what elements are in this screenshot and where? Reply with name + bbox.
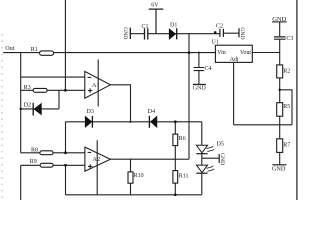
svg-text:R10: R10 <box>134 173 144 179</box>
ground C4 bar <box>193 83 206 85</box>
junction dots <box>214 31 217 34</box>
wire R2 divider chain <box>279 53 281 165</box>
LED D5 upper <box>196 145 214 153</box>
svg-text:Vout: Vout <box>240 50 251 56</box>
svg-text:C3: C3 <box>286 36 293 42</box>
power 6V bar and stem <box>149 9 163 34</box>
svg-text:GND: GND <box>272 165 286 172</box>
svg-text:C2: C2 <box>216 23 223 29</box>
regulator U1 box <box>215 45 252 62</box>
svg-text:Out: Out <box>5 45 15 52</box>
svg-text:R8: R8 <box>31 148 38 154</box>
svg-text:R7: R7 <box>283 142 290 148</box>
wire R6 R11 column <box>174 122 176 195</box>
wire vertical bus x65 <box>64 0 66 90</box>
op-amp A1 minus sign <box>88 76 92 78</box>
svg-text:R6: R6 <box>179 136 186 142</box>
svg-text:D1: D1 <box>170 22 177 28</box>
left page edge (faint) <box>1 34 3 200</box>
wire drop to bottom rail <box>65 122 67 195</box>
svg-text:D2: D2 <box>24 102 31 108</box>
ground C1 sideways bar <box>129 28 131 39</box>
wire adj bypass right <box>280 90 292 125</box>
op-amp A2 power pin <box>96 140 98 195</box>
op-amp A2 minus sign <box>88 151 92 153</box>
svg-text:R3: R3 <box>24 85 31 91</box>
op-amp A2 plus sign <box>88 164 92 168</box>
resistor R5 <box>277 103 283 117</box>
resistor R6 <box>173 134 178 146</box>
wire R9 row <box>21 165 85 200</box>
capacitor C4 leads <box>198 53 200 85</box>
wire D3 D4 rail <box>66 121 202 123</box>
capacitor C2 <box>220 29 224 37</box>
op-amp A1 body <box>85 71 111 98</box>
svg-text:Vin: Vin <box>217 50 226 56</box>
right border frame <box>296 0 298 200</box>
LED D5 lower <box>196 165 214 173</box>
wire bottom rail <box>66 194 202 196</box>
wire Adj stem and feedback <box>234 62 292 124</box>
wire A1 minus input <box>21 76 85 78</box>
diode D1 <box>169 28 177 39</box>
svg-text:D4: D4 <box>148 109 155 115</box>
resistor R7 <box>277 139 283 153</box>
wire R10 branch <box>130 159 132 195</box>
svg-text:A2: A2 <box>92 156 100 163</box>
op-amp A1 power pin <box>97 59 99 106</box>
diode D3 <box>85 116 92 128</box>
svg-text:6V: 6V <box>151 3 159 9</box>
svg-text:Adj: Adj <box>230 57 239 63</box>
wire Vout <box>252 52 279 54</box>
wire LED chain <box>201 122 203 195</box>
svg-text:GND: GND <box>219 153 225 165</box>
resistor R1 <box>40 51 54 55</box>
wire A2 output <box>110 158 175 160</box>
wire R3 row <box>21 89 85 91</box>
capacitor C3 plates <box>274 37 286 39</box>
svg-text:D3: D3 <box>87 109 94 115</box>
op-amp A1 plus sign <box>88 88 92 92</box>
wire A1 output <box>110 85 130 122</box>
op-amp A2 body <box>85 147 111 171</box>
wire top rail <box>130 32 239 35</box>
svg-text:C1: C1 <box>142 24 149 30</box>
capacitor C3 leads <box>279 22 281 53</box>
resistor R3 <box>33 88 47 92</box>
wire LED mid to ground <box>202 157 219 159</box>
svg-text:C4: C4 <box>205 66 212 72</box>
wire vin drop x189 <box>188 34 190 160</box>
diode D2 <box>33 103 41 116</box>
svg-text:GND: GND <box>193 86 207 92</box>
svg-text:GND: GND <box>272 16 286 23</box>
wire R8 row <box>21 152 85 154</box>
svg-text:U1: U1 <box>212 40 219 46</box>
ground C2 sideways bar <box>238 28 240 37</box>
resistor R11 <box>173 171 178 184</box>
svg-text:R11: R11 <box>179 173 189 179</box>
resistor R10 <box>128 172 133 183</box>
resistor R2 <box>277 65 283 78</box>
svg-text:GND: GND <box>122 27 128 39</box>
resistor R9 <box>40 163 53 167</box>
ground LED sideways bar <box>218 154 220 163</box>
ground R7 bar <box>272 164 286 166</box>
svg-text:GND: GND <box>239 27 245 39</box>
capacitor C4 plates <box>194 68 205 71</box>
svg-text:R1: R1 <box>31 47 38 53</box>
wire hook to A2 node <box>175 158 189 160</box>
svg-text:D5: D5 <box>217 142 224 148</box>
diode D4 <box>149 116 157 128</box>
ground top right bar <box>272 21 287 23</box>
capacitor C1 <box>145 28 148 39</box>
svg-text:R9: R9 <box>30 159 37 165</box>
svg-text:R2: R2 <box>283 69 290 75</box>
wire left bus <box>20 53 22 153</box>
wire D2 branch <box>21 90 59 109</box>
wire Out to Vin horizontal <box>3 52 215 54</box>
svg-text:A1: A1 <box>92 82 100 89</box>
resistor R8 <box>40 151 53 155</box>
svg-text:R5: R5 <box>283 104 290 110</box>
